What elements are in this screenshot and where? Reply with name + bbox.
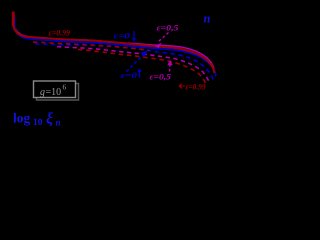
curve s=0.99 dashed dark red upper segment (hugs dashed blue, merges right): [33, 42, 149, 50]
svg-text:n: n: [204, 12, 211, 26]
box g=10^6: [34, 81, 76, 98]
svg-text:ε=0,5: ε=0,5: [150, 72, 172, 82]
box g=10^6 shadow: [37, 84, 79, 101]
arrow dashed magenta vertical from bottom label up to dashed magenta curve: [169, 65, 172, 72]
svg-text:ξ: ξ: [46, 111, 53, 128]
svg-text:ε=0: ε=0: [121, 70, 138, 80]
curve s=0.99 solid dark red steep start reinforcement: [12, 12, 15, 27]
label eps=0.99 with left arrow (dark red, bottom right): [179, 84, 185, 89]
curve s=0.5 dashed magenta: [57, 47, 210, 83]
svg-text:ε=0.99: ε=0.99: [186, 82, 207, 92]
curve s=0 dashed blue: [35, 44, 213, 80]
svg-text:ε=0.99: ε=0.99: [49, 28, 71, 38]
arrow dashed magenta from top label down-left to solid magenta curve: [159, 33, 169, 42]
svg-text:g: g: [40, 87, 45, 98]
svg-text:log: log: [13, 111, 31, 126]
svg-text:ε=0,5: ε=0,5: [157, 23, 180, 33]
svg-text:6: 6: [63, 83, 67, 92]
arrow dashed blue from bottom blue label up-right to dashed blue curve: [127, 54, 145, 72]
curve s=0.99 solid dark red (topmost at left): [13, 12, 215, 74]
svg-text:n: n: [56, 118, 61, 128]
svg-text:=10: =10: [46, 87, 62, 98]
curve s=0.99 dashed dark red lower (diverging, labelled at bottom right): [78, 49, 206, 85]
svg-text:10: 10: [33, 118, 43, 128]
curve s=0 solid blue: [15, 17, 217, 76]
svg-text:ε=0: ε=0: [114, 31, 131, 41]
curve s=0.5 solid magenta (under red at left, peeks above it at right): [14, 15, 214, 70]
